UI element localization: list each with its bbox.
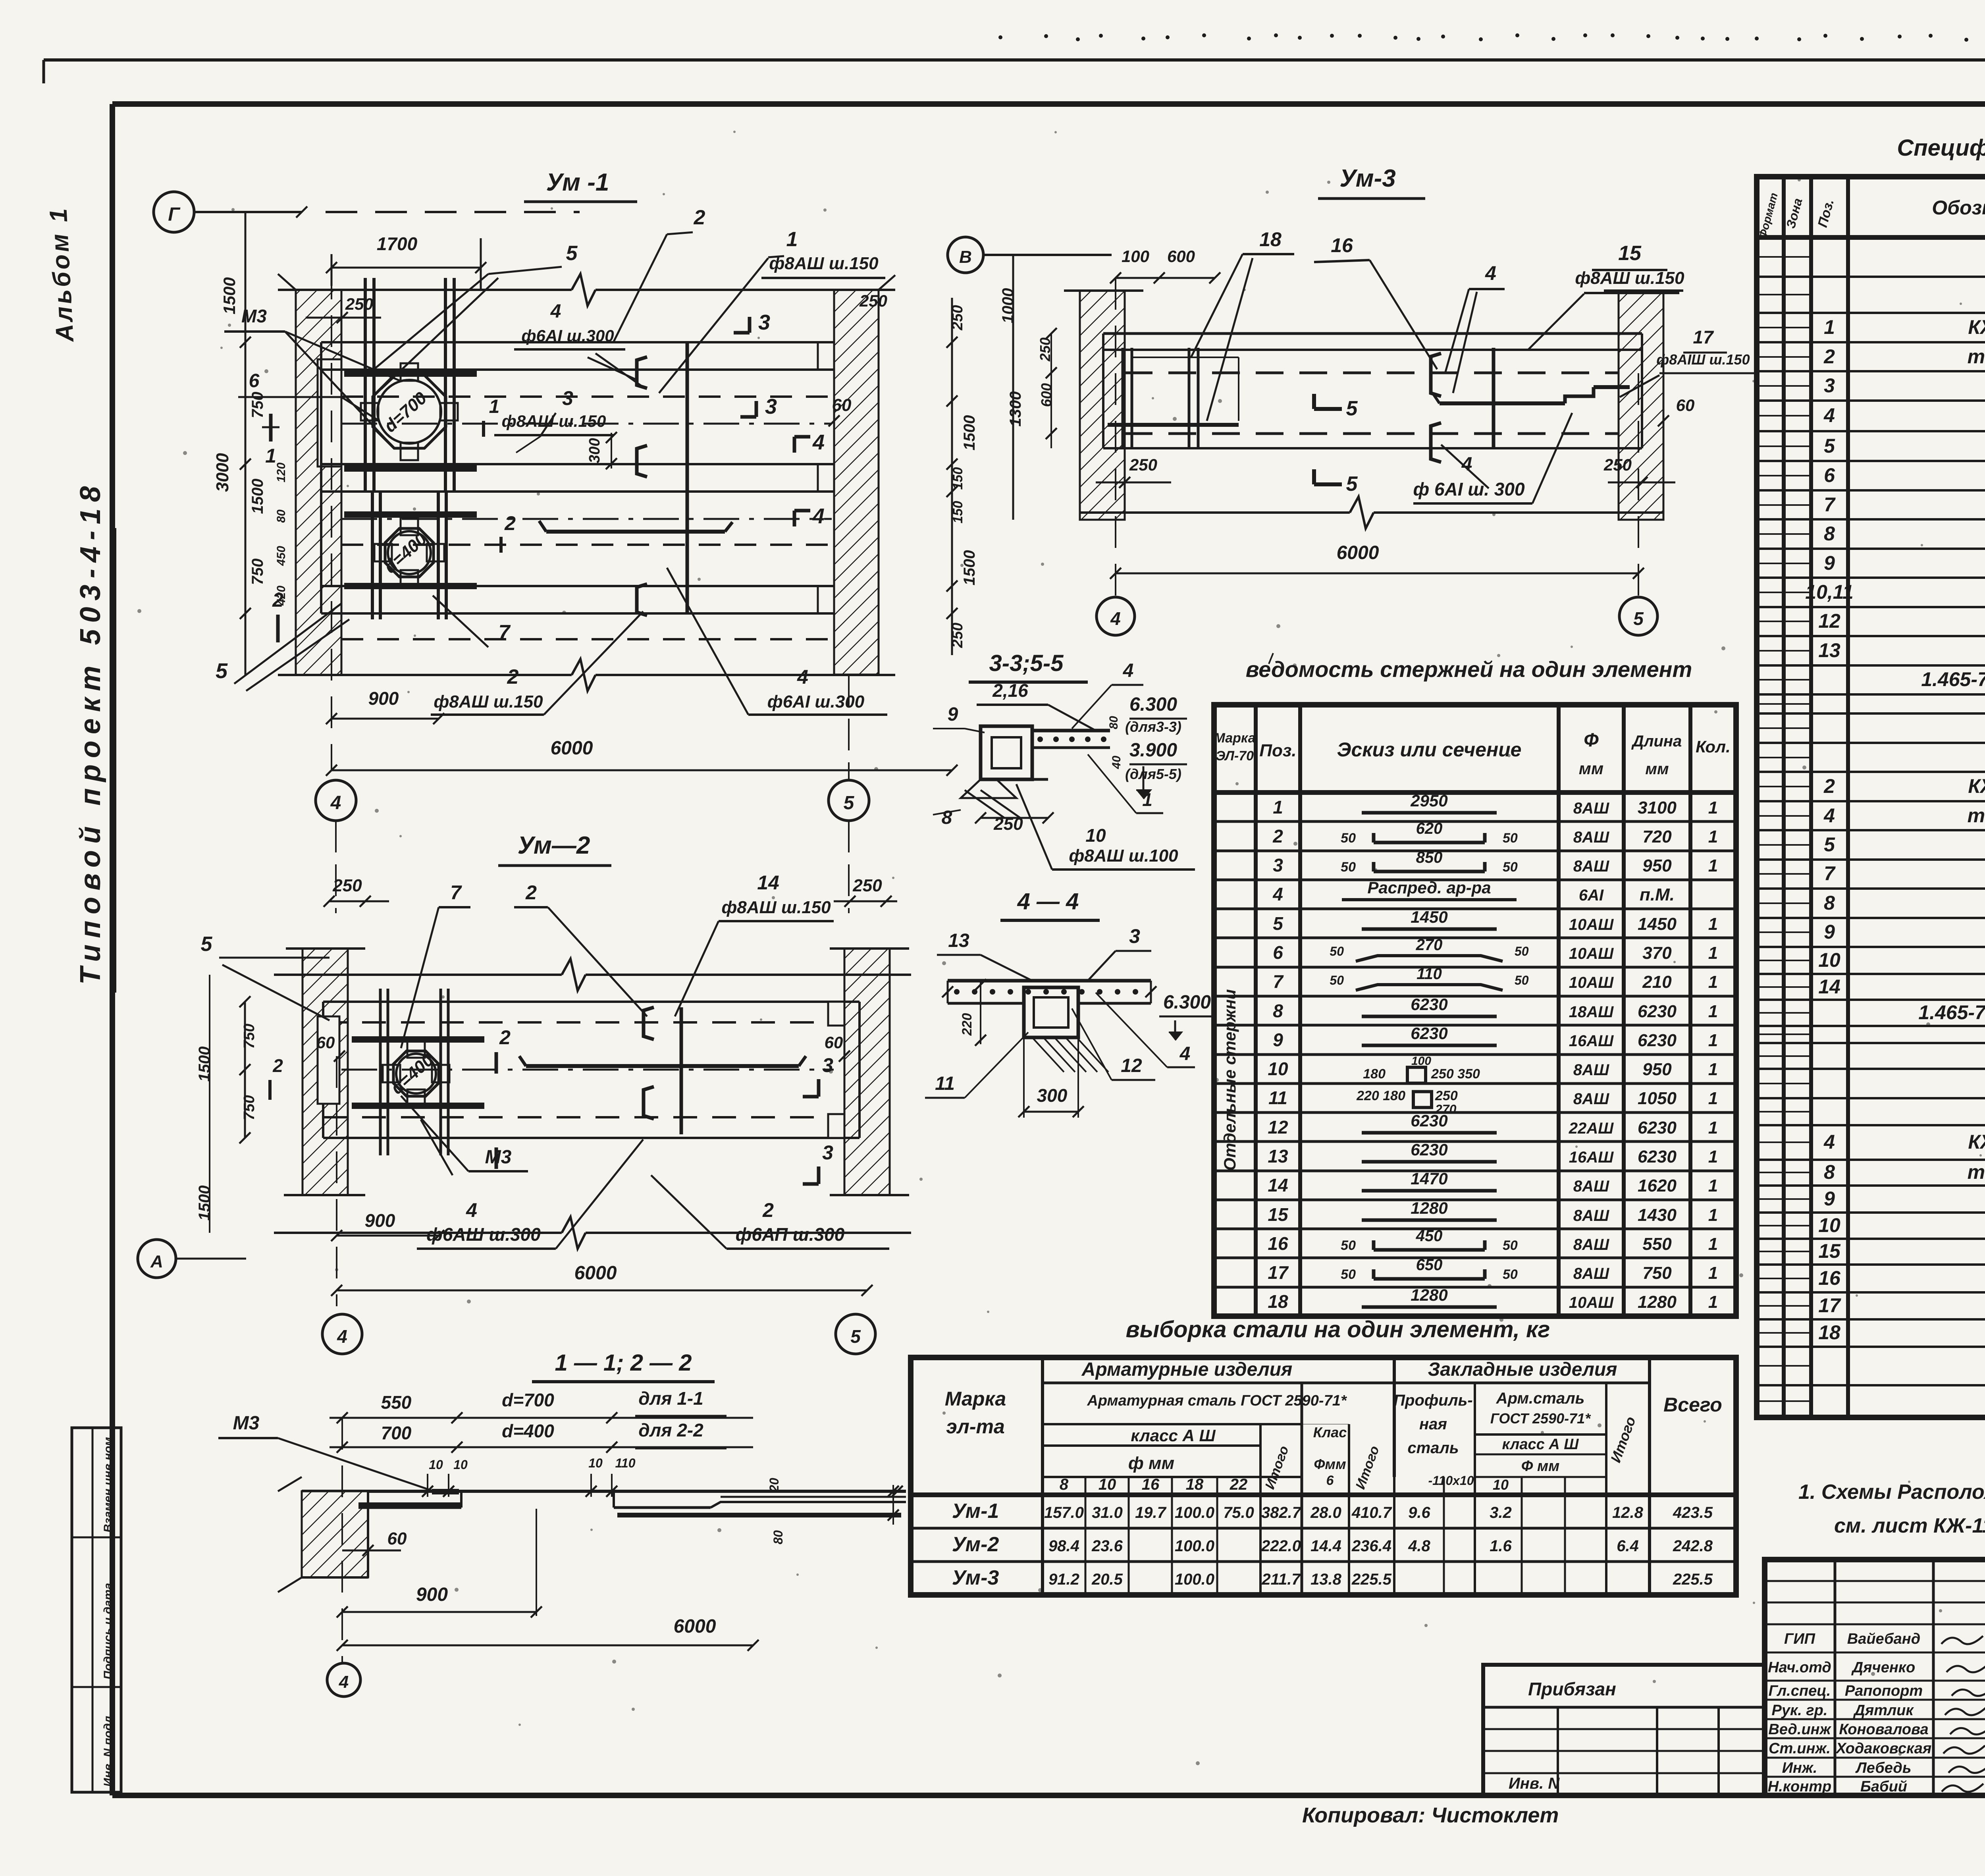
svg-text:10: 10: [588, 1456, 603, 1470]
svg-text:250: 250: [859, 291, 887, 310]
svg-text:9: 9: [1824, 1188, 1835, 1210]
svg-text:6.300: 6.300: [1163, 992, 1211, 1013]
svg-text:370: 370: [1642, 943, 1672, 963]
svg-text:5: 5: [1824, 833, 1835, 856]
svg-text:Ум-3: Ум-3: [1339, 165, 1395, 192]
svg-text:ф8АШ ш.100: ф8АШ ш.100: [1069, 846, 1178, 866]
svg-text:Отдельные стержни: Отдельные стержни: [1220, 989, 1239, 1170]
svg-text:4: 4: [339, 1672, 349, 1692]
svg-text:-110х10: -110х10: [1428, 1473, 1474, 1488]
svg-text:50: 50: [1341, 1238, 1356, 1253]
svg-text:Н.контр: Н.контр: [1768, 1778, 1831, 1795]
svg-text:9: 9: [1824, 921, 1835, 943]
svg-text:10АШ: 10АШ: [1569, 945, 1614, 962]
svg-text:5: 5: [216, 659, 228, 683]
svg-text:Профиль-: Профиль-: [1393, 1392, 1472, 1409]
svg-text:6230: 6230: [1638, 1002, 1677, 1021]
svg-text:Инж.: Инж.: [1782, 1760, 1817, 1776]
svg-text:4: 4: [1823, 404, 1835, 426]
svg-text:М3: М3: [233, 1413, 260, 1434]
svg-text:5: 5: [850, 1326, 861, 1347]
svg-text:550: 550: [381, 1392, 412, 1413]
svg-text:31.0: 31.0: [1092, 1504, 1123, 1521]
svg-text:Рук. гр.: Рук. гр.: [1772, 1702, 1828, 1719]
svg-text:3: 3: [1273, 855, 1283, 875]
svg-text:16: 16: [1818, 1267, 1841, 1289]
svg-text:1: 1: [1708, 1147, 1718, 1166]
svg-text:6: 6: [1824, 464, 1835, 486]
svg-text:Спецификация элементов монол: Спецификация элементов монолитной констр…: [1897, 135, 1985, 161]
svg-text:50: 50: [1341, 831, 1356, 846]
svg-text:250: 250: [852, 876, 882, 895]
svg-text:2950: 2950: [1410, 791, 1447, 810]
svg-text:8АШ: 8АШ: [1573, 800, 1609, 817]
svg-text:4: 4: [466, 1199, 477, 1221]
svg-text:4: 4: [812, 504, 825, 528]
svg-text:2: 2: [499, 1026, 511, 1049]
svg-text:211.7: 211.7: [1261, 1571, 1301, 1588]
svg-text:Вайебанд: Вайебанд: [1847, 1631, 1921, 1647]
svg-text:8АШ: 8АШ: [1573, 1207, 1609, 1224]
svg-text:Распред. ар-ра: Распред. ар-ра: [1367, 878, 1491, 897]
svg-text:18АШ: 18АШ: [1569, 1003, 1614, 1021]
svg-text:8: 8: [1824, 1161, 1835, 1183]
svg-text:Ум -1: Ум -1: [546, 169, 609, 196]
svg-text:1280: 1280: [1411, 1199, 1447, 1217]
svg-text:28.0: 28.0: [1310, 1504, 1341, 1521]
svg-text:9.6: 9.6: [1408, 1504, 1430, 1521]
svg-text:250 350: 250 350: [1431, 1066, 1480, 1082]
svg-text:эл-та: эл-та: [946, 1415, 1005, 1438]
svg-text:6230: 6230: [1638, 1147, 1677, 1166]
svg-text:Ходаковская: Ходаковская: [1835, 1740, 1932, 1757]
svg-text:300: 300: [586, 438, 603, 463]
svg-text:класс А Ш: класс А Ш: [1131, 1426, 1216, 1445]
svg-text:410.7: 410.7: [1351, 1504, 1392, 1521]
svg-text:Копировал: Чистоклет: Копировал: Чистоклет: [1302, 1803, 1559, 1827]
svg-text:60: 60: [1676, 396, 1695, 415]
svg-text:Ф мм: Ф мм: [1521, 1458, 1559, 1475]
svg-text:ф мм: ф мм: [1128, 1454, 1174, 1473]
svg-text:19.7: 19.7: [1135, 1504, 1167, 1521]
svg-text:d=400: d=400: [502, 1421, 554, 1441]
svg-text:1: 1: [1708, 1263, 1718, 1283]
svg-text:4.8: 4.8: [1408, 1537, 1430, 1555]
svg-text:ная: ная: [1419, 1415, 1447, 1433]
svg-text:13: 13: [948, 930, 969, 951]
svg-text:Клас: Клас: [1313, 1424, 1347, 1440]
svg-text:1.465-7вып.3ч.2: 1.465-7вып.3ч.2: [1921, 668, 1985, 690]
svg-text:см. лист КЖ-11.: см. лист КЖ-11.: [1834, 1514, 1985, 1537]
svg-text:Закладные изделия: Закладные изделия: [1428, 1359, 1617, 1380]
svg-text:2: 2: [1823, 345, 1835, 368]
svg-text:для 1-1: для 1-1: [638, 1388, 703, 1409]
svg-text:2: 2: [1272, 826, 1283, 846]
svg-text:Прибязан: Прибязан: [1528, 1679, 1616, 1699]
svg-text:10: 10: [1098, 1476, 1116, 1493]
svg-text:1: 1: [1708, 1234, 1718, 1254]
svg-text:7: 7: [499, 621, 511, 644]
svg-text:КЖ-12: КЖ-12: [1968, 1131, 1985, 1153]
svg-text:80: 80: [1107, 716, 1120, 729]
svg-text:5: 5: [1824, 435, 1835, 457]
svg-text:14: 14: [1818, 976, 1840, 998]
svg-text:4: 4: [812, 430, 825, 454]
svg-text:222.0: 222.0: [1261, 1537, 1301, 1555]
svg-text:5: 5: [844, 792, 855, 814]
svg-text:Длина: Длина: [1631, 733, 1682, 750]
svg-text:3: 3: [1129, 925, 1140, 947]
svg-text:6230: 6230: [1411, 1111, 1447, 1130]
svg-text:22: 22: [1230, 1476, 1248, 1493]
svg-text:100.0: 100.0: [1175, 1537, 1214, 1555]
svg-text:13: 13: [1268, 1146, 1288, 1166]
svg-text:17: 17: [1268, 1262, 1289, 1283]
svg-text:950: 950: [1642, 856, 1672, 875]
svg-text:157.0: 157.0: [1044, 1504, 1084, 1521]
svg-text:7: 7: [450, 881, 462, 904]
svg-text:5: 5: [1346, 397, 1358, 420]
svg-text:Нач.отд: Нач.отд: [1768, 1659, 1831, 1676]
svg-text:250: 250: [1603, 455, 1632, 474]
svg-text:950: 950: [1642, 1060, 1672, 1079]
svg-text:10: 10: [1818, 949, 1840, 971]
svg-text:Ум—2: Ум—2: [518, 832, 590, 859]
svg-text:1 — 1; 2 — 2: 1 — 1; 2 — 2: [555, 1350, 692, 1376]
svg-text:23.6: 23.6: [1091, 1537, 1123, 1555]
svg-text:110: 110: [1416, 965, 1442, 983]
svg-text:7: 7: [1824, 862, 1836, 885]
svg-text:80: 80: [771, 1530, 785, 1544]
svg-text:16: 16: [1268, 1233, 1288, 1254]
svg-text:720: 720: [1642, 827, 1672, 846]
svg-text:сталь: сталь: [1407, 1439, 1459, 1457]
svg-text:4: 4: [1179, 1043, 1191, 1064]
svg-text:10АШ: 10АШ: [1569, 916, 1614, 933]
svg-text:Вед.инж: Вед.инж: [1768, 1721, 1831, 1738]
svg-text:8: 8: [1060, 1476, 1069, 1493]
svg-text:50: 50: [1515, 973, 1529, 987]
svg-text:750: 750: [241, 1095, 258, 1120]
svg-text:750: 750: [249, 392, 266, 418]
svg-text:Г: Г: [168, 204, 181, 225]
svg-text:3: 3: [758, 310, 770, 334]
svg-text:16АШ: 16АШ: [1569, 1032, 1614, 1050]
svg-text:6230: 6230: [1638, 1118, 1677, 1138]
svg-text:4: 4: [1823, 804, 1835, 827]
svg-text:2: 2: [525, 881, 537, 904]
svg-text:100: 100: [1411, 1055, 1431, 1068]
svg-text:Рапопорт: Рапопорт: [1845, 1683, 1923, 1699]
svg-text:1: 1: [1824, 316, 1835, 338]
svg-text:15: 15: [1618, 242, 1642, 265]
svg-text:6: 6: [1326, 1473, 1334, 1488]
svg-text:6000: 6000: [551, 738, 593, 759]
svg-text:420: 420: [275, 586, 288, 606]
svg-text:1430: 1430: [1638, 1205, 1677, 1225]
svg-text:270: 270: [1416, 936, 1443, 954]
svg-text:60: 60: [316, 1033, 335, 1052]
svg-text:18: 18: [1259, 228, 1282, 251]
svg-text:КЖ-12: КЖ-12: [1968, 316, 1985, 338]
svg-text:110: 110: [615, 1456, 635, 1470]
svg-text:5: 5: [1633, 608, 1644, 629]
svg-text:10,11: 10,11: [1805, 581, 1853, 603]
svg-text:17: 17: [1693, 327, 1714, 347]
svg-text:выборка стали на один элеме: выборка стали на один элемент, кг: [1126, 1317, 1550, 1342]
svg-text:1: 1: [1708, 1205, 1718, 1225]
svg-text:1: 1: [1273, 797, 1283, 817]
svg-text:3: 3: [822, 1054, 833, 1076]
svg-text:13: 13: [1818, 639, 1840, 661]
svg-text:6.4: 6.4: [1617, 1537, 1639, 1555]
svg-text:14: 14: [757, 871, 779, 894]
svg-text:КЖ-12: КЖ-12: [1968, 775, 1985, 797]
svg-text:900: 900: [416, 1584, 448, 1605]
svg-text:225.5: 225.5: [1673, 1571, 1713, 1588]
svg-text:250: 250: [949, 305, 966, 330]
svg-text:Фмм: Фмм: [1314, 1456, 1346, 1472]
svg-text:3: 3: [562, 387, 573, 409]
svg-text:150: 150: [950, 501, 966, 524]
svg-text:10: 10: [1085, 825, 1106, 846]
svg-text:220 180: 220 180: [1356, 1088, 1405, 1103]
svg-text:(для3-3): (для3-3): [1125, 719, 1181, 735]
svg-text:180: 180: [1363, 1066, 1386, 1082]
svg-text:9: 9: [1273, 1030, 1283, 1050]
svg-text:2: 2: [762, 1199, 774, 1221]
svg-text:60: 60: [825, 1033, 843, 1052]
svg-text:1300: 1300: [1007, 391, 1024, 427]
svg-text:то же: то же: [1968, 1161, 1985, 1183]
svg-text:6230: 6230: [1411, 995, 1447, 1014]
svg-text:5: 5: [566, 242, 578, 265]
svg-text:1500: 1500: [961, 415, 978, 451]
svg-text:10: 10: [429, 1458, 443, 1472]
svg-text:6: 6: [1273, 942, 1283, 963]
svg-text:ф8АШ ш.150: ф8АШ ш.150: [434, 692, 543, 711]
svg-text:ЭЛ-70: ЭЛ-70: [1216, 748, 1254, 764]
svg-text:Арматурные изделия: Арматурные изделия: [1081, 1359, 1293, 1380]
svg-text:11: 11: [935, 1073, 955, 1094]
svg-text:5: 5: [1346, 472, 1358, 496]
svg-text:9: 9: [948, 704, 958, 725]
svg-text:1500: 1500: [196, 1186, 213, 1221]
svg-text:382.7: 382.7: [1261, 1504, 1302, 1521]
svg-text:8АШ: 8АШ: [1573, 1061, 1609, 1079]
svg-text:225.5: 225.5: [1351, 1571, 1392, 1588]
svg-text:242.8: 242.8: [1673, 1537, 1713, 1555]
svg-text:50: 50: [1503, 860, 1518, 875]
svg-text:750: 750: [249, 559, 266, 585]
svg-text:250: 250: [345, 295, 373, 313]
svg-text:250: 250: [332, 876, 362, 895]
svg-text:Дяченко: Дяченко: [1851, 1659, 1916, 1676]
svg-text:100.0: 100.0: [1175, 1571, 1214, 1588]
svg-text:50: 50: [1503, 1238, 1518, 1253]
svg-text:5: 5: [201, 933, 213, 956]
svg-text:150: 150: [950, 467, 966, 490]
svg-text:Кол.: Кол.: [1696, 737, 1731, 756]
svg-text:1.6: 1.6: [1490, 1537, 1512, 1555]
svg-text:класс А Ш: класс А Ш: [1502, 1436, 1579, 1453]
svg-text:900: 900: [368, 688, 399, 709]
svg-text:7: 7: [1824, 494, 1836, 516]
svg-text:Коновалова: Коновалова: [1839, 1721, 1928, 1738]
svg-text:4: 4: [1485, 262, 1496, 284]
svg-text:Арматурная сталь ГОСТ 2590-71*: Арматурная сталь ГОСТ 2590-71*: [1087, 1392, 1347, 1409]
svg-text:4: 4: [1110, 608, 1121, 629]
svg-text:20.5: 20.5: [1091, 1571, 1123, 1588]
svg-text:1: 1: [489, 396, 500, 417]
svg-text:Всего: Всего: [1663, 1394, 1722, 1416]
svg-text:4: 4: [1272, 884, 1283, 904]
svg-text:6.300: 6.300: [1129, 694, 1177, 715]
svg-text:4 — 4: 4 — 4: [1017, 889, 1079, 914]
svg-text:1050: 1050: [1638, 1089, 1677, 1108]
svg-text:850: 850: [1416, 849, 1443, 866]
svg-text:8АШ: 8АШ: [1573, 858, 1609, 875]
svg-text:Подпись и дата: Подпись и дата: [102, 1583, 115, 1679]
svg-text:1620: 1620: [1638, 1176, 1677, 1195]
svg-text:650: 650: [1416, 1256, 1443, 1274]
svg-text:60: 60: [387, 1529, 407, 1548]
svg-text:Лебедь: Лебедь: [1855, 1760, 1912, 1776]
svg-text:50: 50: [1515, 944, 1529, 958]
svg-text:60: 60: [832, 395, 852, 415]
svg-text:10: 10: [1268, 1059, 1288, 1079]
svg-text:1280: 1280: [1638, 1292, 1677, 1312]
svg-text:5: 5: [1273, 913, 1284, 934]
svg-text:17: 17: [1818, 1294, 1841, 1317]
svg-text:3100: 3100: [1638, 798, 1677, 817]
svg-text:423.5: 423.5: [1673, 1504, 1713, 1521]
svg-text:1: 1: [1708, 943, 1718, 963]
svg-text:ведомость стержней на один эле: ведомость стержней на один элемент: [1246, 657, 1692, 682]
svg-text:1: 1: [1708, 1002, 1718, 1021]
svg-text:50: 50: [1503, 831, 1518, 846]
svg-text:220: 220: [960, 1013, 975, 1036]
svg-text:450: 450: [275, 546, 288, 566]
svg-text:М3: М3: [241, 306, 267, 326]
svg-text:Инв. N подл: Инв. N подл: [102, 1716, 115, 1787]
svg-text:п.М.: п.М.: [1640, 885, 1675, 904]
svg-text:3.900: 3.900: [1129, 740, 1177, 761]
svg-text:4: 4: [1823, 1131, 1835, 1153]
svg-text:1: 1: [1708, 914, 1718, 934]
svg-text:250: 250: [1129, 455, 1157, 474]
svg-text:900: 900: [365, 1210, 395, 1231]
svg-text:6230: 6230: [1638, 1031, 1677, 1050]
svg-text:ф8АШ ш.150: ф8АШ ш.150: [721, 898, 831, 917]
svg-text:2,16: 2,16: [992, 680, 1028, 701]
svg-text:750: 750: [1642, 1263, 1672, 1283]
svg-text:6230: 6230: [1411, 1140, 1447, 1159]
svg-text:9: 9: [1824, 552, 1835, 574]
svg-text:6: 6: [249, 370, 260, 391]
svg-text:6АI: 6АI: [1579, 887, 1604, 904]
svg-text:для 2-2: для 2-2: [638, 1420, 703, 1440]
svg-text:1: 1: [1708, 1292, 1718, 1312]
svg-text:Дятлик: Дятлик: [1853, 1702, 1914, 1719]
svg-text:210: 210: [1642, 972, 1672, 992]
svg-text:мм: мм: [1645, 760, 1669, 778]
svg-text:Бабий: Бабий: [1860, 1778, 1907, 1795]
svg-text:98.4: 98.4: [1048, 1537, 1079, 1555]
svg-text:12.8: 12.8: [1612, 1504, 1644, 1521]
svg-text:1: 1: [1708, 1118, 1718, 1138]
svg-text:8АШ: 8АШ: [1573, 1178, 1609, 1195]
svg-text:3000: 3000: [213, 453, 232, 492]
svg-text:1: 1: [1708, 798, 1718, 817]
svg-text:4: 4: [1123, 660, 1134, 681]
svg-text:Взамен инв.ном: Взамен инв.ном: [102, 1437, 115, 1533]
svg-text:550: 550: [1642, 1234, 1672, 1254]
svg-text:50: 50: [1503, 1267, 1518, 1282]
svg-text:Арм.сталь: Арм.сталь: [1496, 1390, 1585, 1407]
svg-text:15: 15: [1268, 1204, 1289, 1225]
svg-text:10АШ: 10АШ: [1569, 1294, 1614, 1311]
svg-text:250: 250: [949, 623, 966, 648]
svg-text:14: 14: [1268, 1175, 1288, 1195]
svg-text:6000: 6000: [674, 1616, 716, 1637]
svg-text:12: 12: [1818, 610, 1840, 632]
svg-text:10АШ: 10АШ: [1569, 974, 1614, 991]
svg-text:620: 620: [1416, 820, 1443, 837]
svg-text:1: 1: [786, 228, 798, 251]
svg-text:50: 50: [1341, 860, 1356, 875]
svg-text:Марка: Марка: [945, 1388, 1006, 1410]
svg-text:11: 11: [1268, 1087, 1287, 1108]
svg-text:то же: то же: [1968, 345, 1985, 368]
svg-text:(для5-5): (для5-5): [1125, 766, 1181, 782]
svg-text:2: 2: [507, 665, 519, 688]
svg-text:12: 12: [1121, 1055, 1142, 1076]
svg-text:12: 12: [1268, 1117, 1288, 1138]
svg-text:Ум-2: Ум-2: [952, 1533, 999, 1556]
svg-text:Ст.инж.: Ст.инж.: [1769, 1740, 1831, 1757]
svg-text:ГОСТ 2590-71*: ГОСТ 2590-71*: [1490, 1410, 1591, 1427]
svg-text:1: 1: [1708, 1089, 1718, 1108]
svg-text:1500: 1500: [249, 479, 266, 514]
svg-text:120: 120: [275, 463, 288, 482]
svg-text:Типовой проект 503-4-18: Типовой проект 503-4-18: [75, 480, 106, 985]
svg-text:Гл.спец.: Гл.спец.: [1769, 1683, 1831, 1699]
svg-text:10: 10: [453, 1458, 468, 1472]
svg-text:то же: то же: [1968, 804, 1985, 827]
svg-text:Ум-1: Ум-1: [952, 1500, 999, 1523]
svg-text:4: 4: [550, 301, 561, 322]
svg-text:1280: 1280: [1411, 1286, 1447, 1304]
svg-text:10: 10: [1493, 1477, 1509, 1493]
svg-text:1. Схемы Расположения плит: 1. Схемы Расположения плит покрытия и пе…: [1798, 1481, 1985, 1504]
svg-text:22АШ: 22АШ: [1569, 1120, 1614, 1137]
svg-text:20: 20: [767, 1478, 781, 1492]
svg-text:600: 600: [1167, 247, 1195, 266]
svg-text:4: 4: [797, 666, 808, 688]
svg-text:3-3;5-5: 3-3;5-5: [989, 650, 1064, 676]
svg-text:3: 3: [822, 1141, 833, 1164]
svg-text:8АШ: 8АШ: [1573, 829, 1609, 846]
svg-text:мм: мм: [1579, 759, 1603, 778]
svg-text:1500: 1500: [196, 1047, 213, 1082]
svg-text:8: 8: [1824, 892, 1835, 914]
svg-text:1500: 1500: [220, 277, 239, 314]
svg-text:В: В: [959, 247, 972, 267]
svg-text:8АШ: 8АШ: [1573, 1265, 1609, 1282]
svg-text:8: 8: [1824, 523, 1835, 545]
svg-text:450: 450: [1416, 1227, 1443, 1245]
